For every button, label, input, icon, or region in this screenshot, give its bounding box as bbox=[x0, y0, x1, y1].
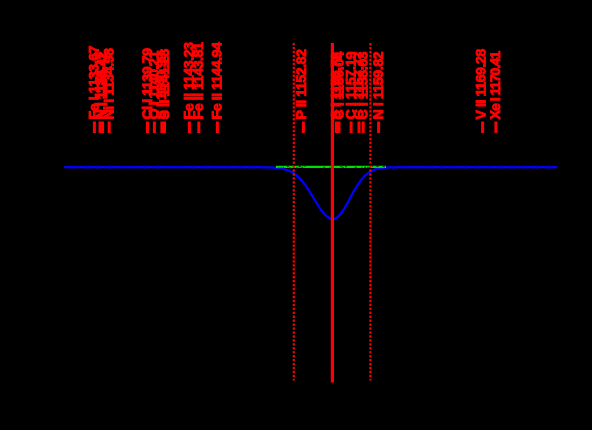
svg-text:Xe I 1170.41: Xe I 1170.41 bbox=[488, 51, 504, 120]
svg-text:N I 1159.82: N I 1159.82 bbox=[371, 51, 387, 119]
svg-text:S II 1141.23: S II 1141.23 bbox=[157, 49, 173, 120]
svg-text:Fe II 1144.94: Fe II 1144.94 bbox=[210, 42, 226, 120]
svg-text:V II 1169.28: V II 1169.28 bbox=[473, 49, 489, 120]
svg-text:Fe II 1143.81: Fe II 1143.81 bbox=[191, 42, 207, 120]
svg-text:Ni I 1134.98: Ni I 1134.98 bbox=[102, 48, 118, 120]
svg-text:C I 1158.03: C I 1158.03 bbox=[356, 51, 372, 119]
svg-text:P II 1152.82: P II 1152.82 bbox=[294, 49, 310, 120]
